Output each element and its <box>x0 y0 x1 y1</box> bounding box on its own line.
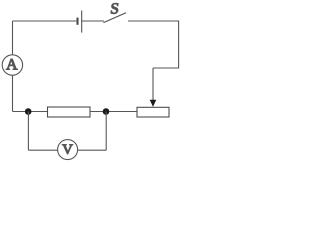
battery cell long plate (positive) <box>81 11 83 33</box>
wire right vertical <box>178 21 180 69</box>
wire jog to slider stem <box>153 67 179 69</box>
wire left vertical upper <box>12 21 14 55</box>
wire resistor to rheostat <box>90 111 137 113</box>
wire bottom to voltmeter <box>28 149 57 151</box>
rheostat slider arrowhead <box>150 100 157 107</box>
wire voltmeter branch left vertical <box>27 112 29 151</box>
svg-text:S: S <box>109 0 119 17</box>
svg-text:V: V <box>62 142 73 158</box>
wire voltmeter branch right vertical <box>105 112 107 151</box>
battery cell short plate (negative) <box>76 18 78 25</box>
rheostat slider stem <box>152 68 154 101</box>
voltmeter V1 circle <box>58 140 78 160</box>
rheostat body R2 <box>137 107 169 117</box>
wire switch to top-right corner <box>128 20 179 22</box>
ammeter A1 circle <box>2 55 22 75</box>
svg-text:A: A <box>6 57 18 74</box>
junction node left <box>25 108 32 115</box>
wire top-left segment <box>13 20 77 22</box>
resistor R1 body <box>48 107 91 117</box>
switch S blade <box>104 13 127 23</box>
wire battery to switch <box>82 20 104 22</box>
wire left vertical lower <box>12 75 14 111</box>
junction node right <box>103 108 110 115</box>
wire bottom-left to resistor <box>13 111 48 113</box>
wire voltmeter to right branch <box>78 149 107 151</box>
